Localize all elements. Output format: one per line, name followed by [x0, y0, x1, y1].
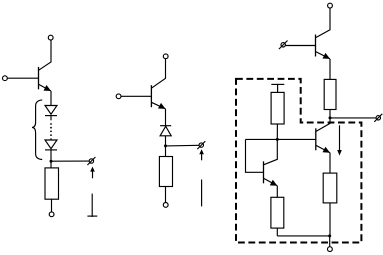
wire collector to top terminal: [39, 40, 52, 70]
node junction J4: [328, 234, 331, 237]
terminal (bottom, left circuit): [49, 212, 54, 217]
resistor R5 (upper left in box): [271, 92, 284, 124]
resistor R1: [45, 168, 59, 199]
wire diode to resistor: [165, 136, 167, 157]
node junction J5: [276, 138, 279, 141]
terminal (base, left circuit): [3, 76, 8, 81]
wire emitter Q4 to resistor R4: [329, 153, 331, 173]
node line (bases): [246, 138, 316, 140]
slashed-circle output (right): [374, 114, 382, 122]
wire emitter to diode: [165, 109, 167, 126]
terminal (top, middle circuit): [163, 54, 168, 59]
terminal (top, right circuit): [328, 3, 333, 8]
up arrow (left): [90, 167, 95, 179]
wire node to output slashed circle: [330, 117, 376, 119]
transistor Q2: [151, 85, 165, 109]
transistor Q3: [316, 35, 331, 59]
wire to variable symbol: [51, 160, 89, 162]
wire collector to top terminal: [316, 8, 331, 38]
diode D2: [45, 138, 57, 150]
wire resistor to bottom terminal: [165, 187, 167, 203]
wire to bottom terminal: [329, 236, 331, 247]
wire base: [7, 77, 38, 79]
current arrow (down): [337, 125, 342, 155]
node junction J1: [50, 160, 53, 163]
terminal (bottom, middle circuit): [163, 203, 168, 208]
diode Z1 (pointing up): [160, 126, 171, 136]
wire R5 to node line: [276, 124, 278, 139]
wire to variable symbol: [166, 144, 200, 147]
terminal (base, middle circuit): [116, 94, 121, 99]
slashed-circle terminal (middle): [197, 141, 205, 149]
dotted continuation: [50, 123, 52, 136]
bottom wire: [277, 235, 329, 237]
wire collector to top terminal: [151, 59, 165, 88]
terminal (top, left circuit): [48, 35, 53, 40]
wire base: [121, 95, 151, 97]
wire resistor to bottom terminal: [51, 199, 53, 212]
slashed-circle terminal (left): [87, 157, 95, 165]
reference line (middle): [201, 180, 203, 207]
wire R4 to bottom node: [329, 203, 331, 236]
transistor Q4 (collector to node): [316, 118, 330, 153]
wire emitter Q5 to resistor R6: [276, 186, 278, 198]
resistor R2: [159, 157, 172, 187]
wire emitter Q3 to resistor: [329, 59, 331, 80]
transistor Q1: [39, 67, 52, 91]
wire R6 to bottom wire: [276, 228, 278, 236]
brace: [32, 100, 42, 160]
wire base feed Q5: [246, 139, 264, 172]
supply bar of R5: [271, 84, 284, 92]
node junction J2: [164, 144, 167, 147]
wire base Q3: [286, 45, 316, 47]
transistor Q5 (collector to node): [264, 139, 278, 185]
resistor R3: [324, 79, 336, 109]
slashed-circle input (Q3 base): [279, 41, 288, 50]
up arrow (middle): [199, 149, 204, 160]
dashed boundary box: [236, 79, 361, 243]
resistor R6: [271, 197, 284, 228]
wire emitter to diode chain: [50, 91, 52, 106]
resistor R4: [323, 173, 337, 203]
terminal (bottom, right circuit): [328, 247, 333, 252]
wire diode to resistor: [50, 150, 52, 168]
wire resistor R3 to node: [329, 110, 331, 118]
reference line with end bar (left): [87, 194, 97, 217]
node junction J3: [329, 116, 332, 119]
diode D1: [45, 106, 57, 121]
